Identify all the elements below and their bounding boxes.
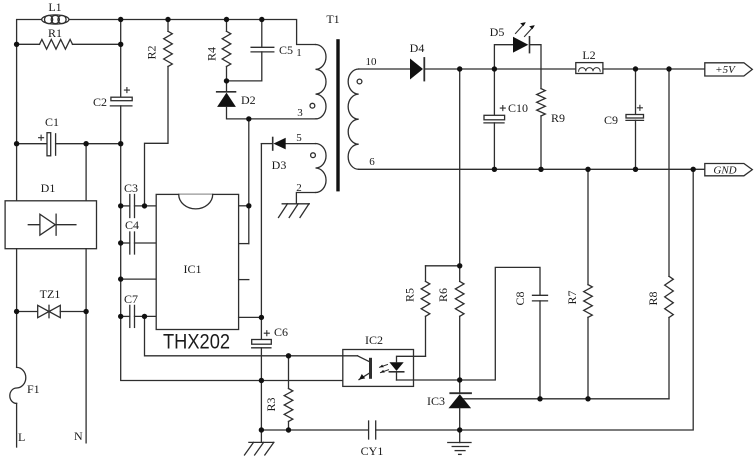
T1 secondary winding pins 10-6 [348,56,377,169]
LED D5 [490,22,541,89]
svg-text:D3: D3 [272,158,287,172]
T1 aux winding pins 5-2 [296,132,326,194]
svg-text:F1: F1 [27,382,40,396]
svg-text:R4: R4 [205,47,219,61]
ground (chassis) below C6 [245,430,274,455]
svg-text:C10: C10 [508,101,528,115]
svg-text:3: 3 [297,107,303,119]
capacitor C1 [17,115,121,156]
diode D2 [217,81,256,119]
svg-text:R5: R5 [403,288,417,302]
node GND flag [705,164,753,177]
capacitor C2 [93,88,132,109]
svg-text:C3: C3 [124,181,138,195]
svg-text:5: 5 [296,132,302,144]
svg-text:+5V: +5V [715,64,736,76]
ground (earth) below IC3 [448,430,471,454]
inductor L2 [576,48,603,74]
svg-text:C5: C5 [279,43,293,57]
svg-text:R8: R8 [646,291,660,305]
inductor L1 [42,0,69,24]
wire bottom ground bus left (C6 gnd to CY1) [261,429,368,431]
fuse F1 [10,367,40,447]
svg-text:L2: L2 [582,48,595,62]
resistor R3 [264,356,293,430]
svg-text:L1: L1 [48,0,61,14]
LED inside IC2 [389,356,425,380]
wire secondary GND rail [359,168,705,170]
svg-text:R3: R3 [264,397,278,411]
wire R5 branch [426,265,460,267]
node +5V flag [705,63,753,76]
capacitor C5 [227,20,294,81]
T1 primary winding pins 1-3 [296,45,326,120]
diode D3 [261,138,315,173]
svg-text:C9: C9 [604,113,618,127]
wire pin2 to primary ground [296,193,315,204]
svg-text:C7: C7 [124,292,138,306]
svg-text:IC1: IC1 [184,262,202,276]
wire primary gnd rail (C2 bottom down to bottom bend) [121,106,361,381]
svg-text:C1: C1 [45,115,59,129]
svg-text:L: L [18,430,25,444]
svg-text:1: 1 [296,47,302,59]
node N [74,429,83,443]
light arrows inside IC2 [380,365,389,373]
svg-text:N: N [74,429,83,443]
wire IC1 right pins [239,280,262,318]
wire IC3 ref to divider [464,398,669,400]
svg-text:C4: C4 [125,218,139,232]
svg-text:CY1: CY1 [361,444,384,458]
transistor Q inside IC2 [343,356,371,380]
transformer T1 [326,12,339,191]
ground (chassis) at T1 pin 2 [279,204,310,218]
resistor R8 [646,69,673,399]
svg-text:D5: D5 [490,25,505,39]
diode D4 [410,41,425,81]
value label THX202 [163,330,230,354]
wire secondary +V node down to divider [459,69,461,266]
svg-text:D2: D2 [241,93,256,107]
capacitor C8 [460,267,548,398]
optocoupler IC2 [343,333,414,386]
wire IC1 gnd pin to primary rail [121,278,157,280]
svg-text:GND: GND [713,165,736,177]
node L [18,430,25,444]
wire bridge to mains L/N [17,249,87,443]
resistor R6 [436,266,464,380]
svg-text:IC3: IC3 [427,394,445,408]
wire feedback (C7 pin to opto collector) [145,316,346,355]
resistor R2 [145,20,173,206]
svg-text:IC2: IC2 [365,333,383,347]
wire aux VCC (D3 to C6 / IC1 vcc pin) [260,144,262,340]
capacitor C4 [121,218,157,254]
svg-text:T1: T1 [326,12,339,26]
capacitor CY1 [361,421,384,458]
svg-text:THX202: THX202 [163,330,230,354]
svg-text:R2: R2 [145,45,159,59]
svg-text:R6: R6 [436,288,450,302]
bridge rectifier D1 [5,144,96,249]
wire top DC+ bus from bridge corner to transformer pin 1 [17,20,316,144]
op-amp IC1 (THX202 controller) [156,194,238,329]
wire opto LED cathode to IC3 [397,379,460,381]
resistor R7 [565,169,592,398]
capacitor C3 [121,181,157,218]
svg-text:D1: D1 [41,181,56,195]
capacitor C10 [484,69,528,169]
wire +5V rail [359,68,705,70]
resistor R1 [17,26,121,49]
varistor TZ1 [17,287,87,318]
shunt regulator IC3 [427,380,471,430]
svg-text:C6: C6 [274,325,288,339]
resistor R5 [403,266,430,357]
capacitor C7 [121,292,157,327]
svg-text:C8: C8 [513,291,527,305]
svg-text:D4: D4 [410,41,425,55]
capacitor C9 [604,69,644,169]
wire bottom ground bus right (CY1 to secondary gnd rail) [376,169,694,430]
svg-text:R9: R9 [551,111,565,125]
svg-text:TZ1: TZ1 [40,287,61,301]
resistor R9 [537,89,565,170]
wire MOSFET drain (pin3 node down to IC1) [239,119,317,244]
resistor R4 [205,20,231,81]
svg-text:R1: R1 [48,26,62,40]
capacitor C6 [252,325,288,430]
svg-text:6: 6 [369,156,375,168]
svg-text:C2: C2 [93,95,107,109]
wire primary rail upper (C2 top to top bus) [120,20,122,98]
svg-text:10: 10 [366,56,378,68]
svg-text:R7: R7 [565,290,579,304]
